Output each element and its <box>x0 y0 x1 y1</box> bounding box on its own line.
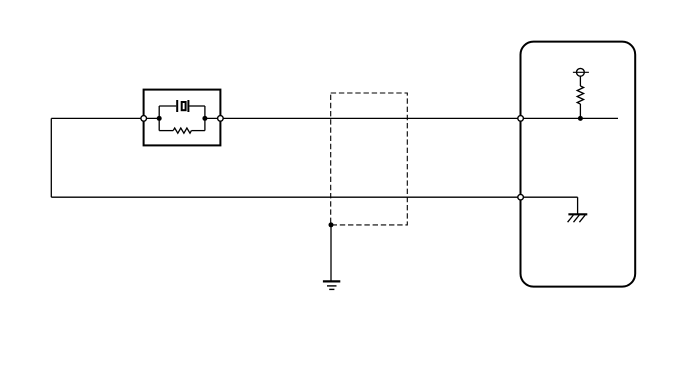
wire: resistor bottom lead to top line <box>579 104 581 118</box>
wire: crystal top branch leads <box>159 105 205 107</box>
terminal: connector pin 2 (open circle on left edge, bottom line) <box>518 194 524 200</box>
wire: top signal line, right segment from crystal-box right terminal to end inside connector <box>205 117 618 119</box>
node: shield junction dot <box>329 222 334 227</box>
resistor R1 (parallel with crystal, horizontal zigzag) <box>173 128 191 133</box>
connector / IC module U1 (rounded enclosure) <box>521 42 636 287</box>
crystal element (plates and resonator slab) <box>177 100 188 112</box>
wire: top signal line, left segment from left loop to crystal-box left terminal <box>51 117 159 119</box>
earth ground symbol <box>323 281 340 289</box>
terminal: crystal box left pin (open circle) <box>141 116 147 122</box>
wire: shield drain to earth ground <box>330 225 332 281</box>
resistor R2 (pull-up, vertical zigzag) <box>577 86 583 104</box>
crystal unit X1 (boxed crystal with parallel resistor) <box>144 90 221 146</box>
wire: drop from bottom line corner to chassis ground <box>577 197 579 213</box>
wire: pull-up from supply terminal to resistor <box>579 76 581 86</box>
node: crystal box left inner junction dot <box>157 116 162 121</box>
wire: inner loop left vertical <box>158 106 160 131</box>
terminal: connector pin 1 (open circle on left edge, top line) <box>518 116 524 122</box>
wire: inner loop right vertical <box>204 106 206 131</box>
terminal: crystal box right pin (open circle) <box>218 116 224 122</box>
shielded cable (dashed screen boundary) <box>331 93 408 225</box>
wire: bottom return line from left loop to ground corner inside connector <box>51 196 577 198</box>
node: pull-up junction dot on top line <box>578 116 583 121</box>
node: crystal box right inner junction dot <box>202 116 207 121</box>
wire: left vertical link joining top and bottom lines <box>50 118 52 197</box>
chassis ground symbol <box>568 214 588 222</box>
wire: resistor bottom branch leads <box>159 130 205 132</box>
supply terminal (circle with strike-through) <box>573 68 589 76</box>
